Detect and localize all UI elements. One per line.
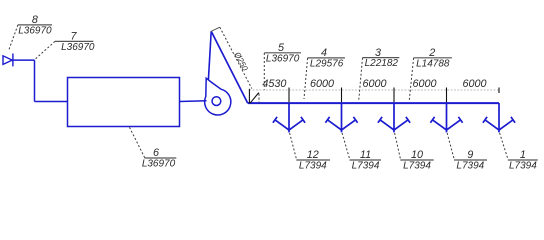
dimension start extension line [248, 89, 250, 103]
svg-text:L36970: L36970 [266, 53, 300, 64]
wire AHU to fan [180, 100, 207, 103]
dimension tick / branch extension [288, 88, 290, 103]
svg-text:L7394: L7394 [299, 161, 327, 172]
intake louver (node 8 symbol) [3, 54, 13, 67]
svg-text:12: 12 [307, 149, 319, 161]
diffuser node 12 symbol [273, 117, 305, 130]
svg-text:L7394: L7394 [403, 161, 431, 172]
dashed diagonal (duct second edge) [220, 27, 252, 88]
svg-text:L7394: L7394 [509, 161, 537, 172]
svg-text:5: 5 [278, 42, 285, 54]
node 4 label [308, 47, 346, 69]
svg-text:8: 8 [32, 14, 38, 26]
svg-text:7: 7 [70, 31, 77, 43]
svg-text:L36970: L36970 [142, 159, 176, 170]
leader line [35, 41, 55, 59]
svg-text:L29576: L29576 [310, 59, 344, 70]
diffuser node 9 symbol [430, 117, 462, 130]
cap line at duct apex [211, 27, 220, 31]
dimension tick / branch extension [446, 88, 448, 103]
dimension start oblique tick [250, 93, 259, 104]
svg-text:6: 6 [153, 147, 159, 159]
svg-text:L14788: L14788 [416, 58, 450, 69]
wire into AHU [35, 101, 68, 103]
svg-text:3: 3 [375, 47, 381, 59]
svg-text:L36970: L36970 [18, 26, 52, 37]
svg-text:11: 11 [360, 149, 371, 161]
node 2 label [414, 47, 453, 69]
leader line [304, 58, 308, 99]
AHU unit (node 6) rectangle [68, 78, 180, 127]
diffuser node 11 symbol [325, 117, 357, 130]
svg-text:4530: 4530 [262, 78, 286, 90]
branch drop wire 3 [393, 103, 395, 132]
leader line [409, 58, 413, 100]
leader line [263, 53, 265, 90]
branch drop wire 4 [446, 103, 448, 132]
svg-text:6000: 6000 [310, 78, 334, 90]
node 6 label [142, 147, 176, 169]
svg-text:6000: 6000 [412, 78, 436, 90]
svg-text:1: 1 [520, 149, 526, 161]
dimension line [249, 89, 499, 91]
short dashed extension [258, 94, 260, 103]
fan (centrifugal) [205, 78, 231, 115]
diffuser node 10 symbol [378, 117, 410, 130]
svg-text:4: 4 [321, 47, 327, 59]
leader line [359, 58, 363, 100]
branch drop wire 5 [498, 103, 500, 132]
node 12 label [296, 149, 330, 171]
svg-text:10: 10 [411, 149, 423, 161]
node 1 label [508, 149, 538, 171]
main horizontal duct [248, 102, 499, 104]
svg-text:2: 2 [428, 47, 435, 59]
dimension tick / branch extension [393, 88, 395, 103]
svg-text:6000: 6000 [462, 78, 486, 90]
leader line [342, 133, 350, 160]
svg-text:L22182: L22182 [365, 58, 399, 69]
branch drop wire 1 [288, 103, 290, 132]
node 9 label [454, 149, 487, 171]
node 3 label [363, 47, 400, 69]
leader line [395, 133, 401, 160]
dimension tick / branch extension [341, 88, 343, 103]
node 8 label [18, 14, 52, 36]
svg-text:9: 9 [467, 149, 473, 161]
svg-text:Ø250: Ø250 [232, 50, 250, 73]
node 7 label [55, 31, 95, 53]
node 11 label [350, 149, 382, 171]
diffuser node 1 symbol [483, 117, 515, 130]
leader line [447, 133, 454, 160]
leader line [9, 25, 18, 51]
node 10 label [400, 149, 433, 171]
leader line [130, 127, 145, 158]
node 5 label [264, 42, 301, 64]
svg-text:6000: 6000 [362, 78, 386, 90]
svg-text:L7394: L7394 [456, 161, 484, 172]
branch drop wire 2 [341, 103, 343, 132]
diagonal duct run node 5 [211, 31, 248, 103]
leader line [500, 133, 509, 160]
svg-text:L7394: L7394 [352, 161, 380, 172]
leader line [290, 133, 297, 160]
svg-text:L36970: L36970 [61, 42, 95, 53]
fan discharge duct (vertical, axono) [208, 31, 211, 80]
dimension end tick [498, 88, 500, 94]
wire from louver to riser [13, 59, 35, 61]
riser wire down [34, 60, 36, 101]
